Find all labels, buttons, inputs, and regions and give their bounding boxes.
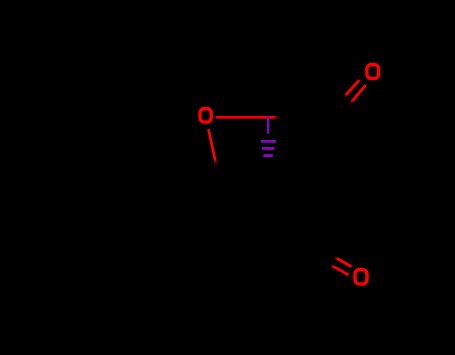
stereo bond stem at C3 (purple) [267, 116, 269, 133]
stereo hash mark 1 [261, 140, 276, 143]
atom O1 (ether oxygen) [200, 109, 211, 123]
C=O double bond top, inner line [343, 80, 359, 98]
bond O1-C3 (horizontal, red fading to carbon) [216, 116, 283, 119]
atom O2 (top ketone oxygen) [367, 65, 379, 79]
C=O double bond top, outer line [349, 85, 366, 105]
atom O3 (bottom ketone oxygen) [355, 270, 367, 285]
C=O double bond bottom, lower line [329, 264, 348, 275]
stereo hash mark 3 [263, 154, 273, 157]
C=O double bond bottom, upper line [334, 257, 352, 267]
bond O1-C1 (diagonal down, red fading to carbon) [209, 129, 217, 168]
stereo hash mark 2 [262, 147, 275, 150]
